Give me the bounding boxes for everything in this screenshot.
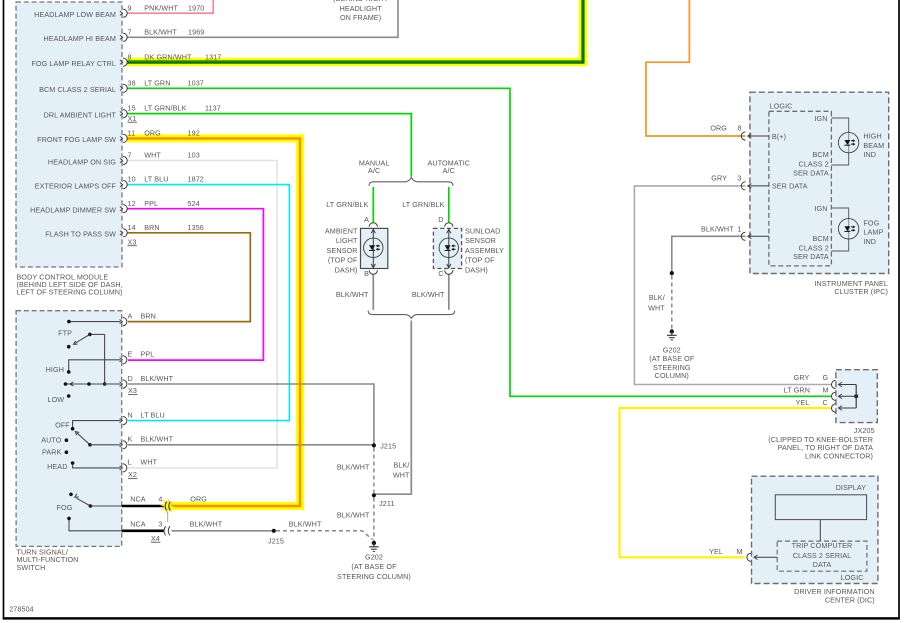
svg-text:X3: X3: [128, 237, 137, 246]
svg-text:9: 9: [128, 3, 132, 12]
svg-text:FOG LAMP RELAY CTRL: FOG LAMP RELAY CTRL: [31, 59, 116, 68]
svg-text:LT GRN/BLK: LT GRN/BLK: [144, 104, 186, 113]
svg-text:A: A: [128, 311, 133, 320]
svg-text:15: 15: [128, 104, 136, 113]
svg-text:ON FRAME): ON FRAME): [340, 13, 381, 22]
svg-text:PPL: PPL: [141, 350, 155, 359]
svg-text:BCM: BCM: [813, 150, 829, 159]
svg-text:IGN: IGN: [814, 114, 827, 123]
svg-text:J215: J215: [268, 537, 284, 546]
svg-text:FOG: FOG: [57, 503, 73, 512]
svg-text:B(+): B(+): [772, 132, 786, 141]
svg-text:LT BLU: LT BLU: [144, 175, 168, 184]
svg-text:WHT: WHT: [144, 151, 161, 160]
svg-text:M: M: [823, 386, 829, 395]
svg-text:BLK/WHT: BLK/WHT: [141, 374, 174, 383]
svg-text:BEAM: BEAM: [863, 141, 884, 150]
svg-text:LT BLU: LT BLU: [141, 410, 165, 419]
svg-text:(AT BASE OF: (AT BASE OF: [649, 354, 695, 363]
svg-text:PPL: PPL: [144, 199, 158, 208]
svg-text:X1: X1: [128, 114, 137, 123]
svg-text:DASH): DASH): [335, 265, 358, 274]
svg-text:ORG: ORG: [710, 123, 727, 132]
svg-text:1872: 1872: [188, 175, 204, 184]
svg-text:TRIP COMPUTER: TRIP COMPUTER: [792, 541, 853, 550]
svg-text:SER DATA: SER DATA: [793, 252, 829, 261]
svg-text:BCM: BCM: [813, 234, 829, 243]
svg-text:10: 10: [128, 175, 136, 184]
svg-text:WHT: WHT: [141, 458, 158, 467]
svg-text:G202: G202: [365, 552, 383, 561]
svg-text:DASH): DASH): [465, 265, 488, 274]
svg-text:11: 11: [128, 129, 136, 138]
svg-text:12: 12: [128, 199, 136, 208]
svg-text:AUTO: AUTO: [41, 435, 62, 444]
svg-text:BLK/WHT: BLK/WHT: [190, 520, 223, 529]
svg-text:FLASH TO PASS SW: FLASH TO PASS SW: [45, 230, 116, 239]
svg-text:SENSOR: SENSOR: [465, 236, 496, 245]
svg-text:NCA: NCA: [130, 495, 146, 504]
svg-text:YEL: YEL: [709, 547, 723, 556]
svg-text:BLK/WHT: BLK/WHT: [336, 290, 369, 299]
svg-text:FTP: FTP: [58, 329, 72, 338]
svg-text:LT GRN: LT GRN: [784, 386, 810, 395]
svg-text:192: 192: [188, 129, 200, 138]
svg-text:BLK/WHT: BLK/WHT: [289, 520, 322, 529]
svg-text:BLK/WHT: BLK/WHT: [144, 27, 177, 36]
svg-text:EXTERIOR LAMPS OFF: EXTERIOR LAMPS OFF: [35, 181, 117, 190]
svg-text:4: 4: [158, 495, 162, 504]
svg-text:1037: 1037: [188, 78, 204, 87]
svg-text:A/C: A/C: [443, 166, 455, 175]
svg-text:1: 1: [737, 224, 741, 233]
svg-text:D: D: [438, 215, 443, 224]
svg-text:278504: 278504: [9, 604, 34, 613]
svg-text:AMBIENT: AMBIENT: [325, 227, 358, 236]
svg-text:(BEHIND RIGHT: (BEHIND RIGHT: [333, 0, 389, 3]
svg-text:LOW: LOW: [48, 395, 65, 404]
svg-text:CLASS 2 SERIAL: CLASS 2 SERIAL: [793, 551, 852, 560]
svg-text:LT GRN: LT GRN: [144, 78, 170, 87]
svg-text:A: A: [364, 215, 369, 224]
svg-text:X4: X4: [151, 534, 160, 543]
svg-text:(AT BASE OF: (AT BASE OF: [351, 562, 397, 571]
svg-text:SWITCH: SWITCH: [17, 563, 46, 572]
svg-text:HEADLIGHT: HEADLIGHT: [340, 4, 383, 13]
svg-text:HEADLAMP HI BEAM: HEADLAMP HI BEAM: [43, 34, 116, 43]
svg-text:103: 103: [188, 151, 200, 160]
svg-text:7: 7: [128, 151, 132, 160]
svg-text:1970: 1970: [188, 3, 204, 12]
svg-text:X3: X3: [128, 386, 137, 395]
svg-text:PARK: PARK: [42, 447, 62, 456]
svg-text:PNK/WHT: PNK/WHT: [144, 3, 178, 12]
svg-text:LOGIC: LOGIC: [770, 102, 793, 111]
svg-text:HEADLAMP ON SIG: HEADLAMP ON SIG: [48, 157, 116, 166]
svg-text:HEAD: HEAD: [47, 462, 67, 471]
svg-text:IGN: IGN: [814, 204, 827, 213]
svg-text:G: G: [823, 373, 829, 382]
svg-text:CLUSTER (IPC): CLUSTER (IPC): [834, 287, 888, 296]
svg-text:HIGH: HIGH: [46, 365, 64, 374]
svg-text:CLASS 2: CLASS 2: [799, 243, 829, 252]
svg-text:GRY: GRY: [711, 173, 727, 182]
svg-text:OFF: OFF: [55, 420, 70, 429]
svg-text:B: B: [364, 269, 369, 278]
svg-text:J215: J215: [380, 441, 396, 450]
svg-text:(TOP OF: (TOP OF: [328, 256, 358, 265]
svg-text:A/C: A/C: [368, 166, 380, 175]
svg-text:FRONT FOG LAMP SW: FRONT FOG LAMP SW: [37, 135, 116, 144]
svg-text:3: 3: [158, 520, 162, 529]
svg-text:3: 3: [737, 173, 741, 182]
svg-text:524: 524: [188, 199, 200, 208]
svg-text:LINK CONNECTOR): LINK CONNECTOR): [805, 452, 873, 461]
svg-text:SER DATA: SER DATA: [772, 182, 808, 191]
svg-text:ORG: ORG: [190, 495, 207, 504]
svg-text:CENTER (DIC): CENTER (DIC): [825, 595, 875, 604]
svg-text:LEFT OF STEERING COLUMN): LEFT OF STEERING COLUMN): [17, 288, 123, 297]
svg-text:14: 14: [128, 223, 136, 232]
svg-text:ORG: ORG: [144, 129, 161, 138]
svg-text:ASSEMBLY: ASSEMBLY: [465, 246, 504, 255]
svg-text:BRN: BRN: [144, 223, 159, 232]
svg-text:DATA: DATA: [813, 560, 832, 569]
svg-text:HIGH: HIGH: [863, 132, 881, 141]
svg-text:BLK/WHT: BLK/WHT: [337, 462, 370, 471]
svg-text:E: E: [128, 350, 133, 359]
svg-text:J211: J211: [379, 499, 394, 508]
svg-text:BCM CLASS 2 SERIAL: BCM CLASS 2 SERIAL: [39, 85, 116, 94]
svg-text:SER DATA: SER DATA: [793, 168, 829, 177]
svg-text:1969: 1969: [188, 27, 204, 36]
svg-text:WHT: WHT: [648, 303, 665, 312]
svg-text:YEL: YEL: [796, 398, 810, 407]
svg-text:1137: 1137: [205, 104, 221, 113]
svg-text:LT GRN/BLK: LT GRN/BLK: [402, 200, 444, 209]
svg-text:C: C: [823, 398, 828, 407]
svg-text:L: L: [128, 458, 132, 467]
svg-text:SUNLOAD: SUNLOAD: [465, 227, 500, 236]
svg-text:DISPLAY: DISPLAY: [836, 483, 867, 492]
svg-text:STEERING COLUMN): STEERING COLUMN): [337, 572, 411, 581]
svg-text:WHT: WHT: [393, 471, 410, 480]
svg-text:K: K: [128, 435, 133, 444]
svg-text:X2: X2: [128, 470, 137, 479]
svg-text:BRN: BRN: [141, 311, 156, 320]
svg-text:BLK/WHT: BLK/WHT: [141, 435, 174, 444]
svg-text:BLK/WHT: BLK/WHT: [701, 224, 734, 233]
svg-text:BLK/WHT: BLK/WHT: [337, 511, 370, 520]
svg-text:BLK/: BLK/: [394, 461, 410, 470]
svg-text:LT GRN/BLK: LT GRN/BLK: [326, 200, 368, 209]
svg-text:7: 7: [128, 27, 132, 36]
svg-text:GRY: GRY: [794, 373, 810, 382]
svg-text:8: 8: [737, 123, 741, 132]
svg-text:38: 38: [128, 78, 136, 87]
svg-text:M: M: [737, 547, 743, 556]
svg-text:FOG: FOG: [863, 219, 879, 228]
svg-text:1317: 1317: [205, 52, 221, 61]
svg-text:HEADLAMP DIMMER SW: HEADLAMP DIMMER SW: [30, 206, 116, 215]
svg-text:DK GRN/WHT: DK GRN/WHT: [144, 52, 192, 61]
svg-text:SENSOR: SENSOR: [327, 246, 358, 255]
svg-text:CLASS 2: CLASS 2: [799, 160, 829, 169]
svg-text:8: 8: [128, 52, 132, 61]
svg-text:IND: IND: [863, 150, 876, 159]
svg-text:DRL AMBIENT LIGHT: DRL AMBIENT LIGHT: [44, 110, 117, 119]
svg-text:JX205: JX205: [854, 426, 875, 435]
svg-text:D: D: [128, 374, 133, 383]
svg-text:1356: 1356: [188, 223, 204, 232]
svg-text:BLK/WHT: BLK/WHT: [412, 290, 445, 299]
svg-text:(TOP OF: (TOP OF: [465, 256, 495, 265]
svg-text:BLK/: BLK/: [649, 293, 665, 302]
svg-text:LIGHT: LIGHT: [336, 236, 358, 245]
svg-text:LAMP: LAMP: [863, 228, 883, 237]
svg-text:COLUMN): COLUMN): [655, 371, 689, 380]
svg-text:LOGIC: LOGIC: [841, 573, 864, 582]
svg-text:C: C: [438, 269, 443, 278]
svg-text:HEADLAMP LOW BEAM: HEADLAMP LOW BEAM: [34, 10, 116, 19]
svg-text:NCA: NCA: [130, 520, 146, 529]
svg-text:N: N: [128, 410, 133, 419]
svg-text:IND: IND: [863, 237, 876, 246]
